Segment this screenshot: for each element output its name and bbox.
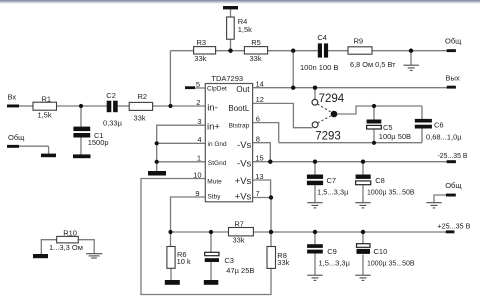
svg-text:12: 12	[256, 95, 264, 104]
svg-text:15: 15	[255, 153, 263, 162]
svg-text:1,5k: 1,5k	[37, 110, 51, 119]
svg-text:in Gnd: in Gnd	[208, 141, 228, 148]
svg-text:6: 6	[256, 114, 260, 123]
svg-text:6,8 Ом 0,5 Вт: 6,8 Ом 0,5 Вт	[350, 60, 396, 69]
svg-text:100n 100 В: 100n 100 В	[300, 63, 338, 72]
svg-text:Общ: Общ	[445, 37, 461, 46]
svg-text:ClpDet: ClpDet	[207, 85, 227, 92]
svg-text:Общ: Общ	[445, 181, 461, 190]
svg-text:4: 4	[197, 135, 201, 144]
svg-text:Stby: Stby	[208, 194, 222, 201]
svg-text:7293: 7293	[315, 131, 341, 143]
svg-text:C10: C10	[374, 247, 388, 256]
svg-text:C7: C7	[327, 176, 337, 185]
svg-text:9: 9	[195, 189, 199, 198]
svg-text:C6: C6	[434, 120, 444, 129]
svg-text:R5: R5	[251, 38, 261, 47]
svg-text:1000µ 35...50В: 1000µ 35...50В	[367, 258, 415, 267]
svg-text:7294: 7294	[319, 93, 345, 105]
svg-text:-Vs: -Vs	[237, 140, 252, 151]
svg-text:33k: 33k	[194, 54, 206, 63]
svg-text:R3: R3	[197, 38, 207, 47]
svg-text:1,5...3,3µ: 1,5...3,3µ	[317, 188, 349, 197]
svg-text:1: 1	[197, 154, 201, 163]
svg-text:5: 5	[196, 80, 200, 89]
svg-text:R9: R9	[354, 36, 364, 45]
svg-text:in+: in+	[207, 121, 220, 132]
svg-text:100µ 50В: 100µ 50В	[379, 132, 411, 141]
svg-text:33k: 33k	[277, 258, 289, 267]
svg-text:1,5...3,3µ: 1,5...3,3µ	[319, 259, 351, 268]
svg-text:Out: Out	[236, 85, 250, 94]
svg-text:0,33µ: 0,33µ	[103, 118, 123, 127]
svg-text:Btstrap: Btstrap	[229, 123, 250, 130]
svg-text:0,68...1,0µ: 0,68...1,0µ	[426, 132, 462, 141]
svg-text:C4: C4	[317, 33, 327, 42]
svg-text:+Vs: +Vs	[235, 176, 252, 187]
svg-text:33k: 33k	[250, 54, 262, 63]
svg-text:+Vs: +Vs	[235, 191, 252, 202]
svg-text:TDA7293: TDA7293	[211, 74, 243, 83]
svg-text:7: 7	[256, 189, 260, 198]
svg-text:C5: C5	[383, 123, 393, 132]
svg-text:C3: C3	[224, 256, 234, 265]
svg-text:-Vs: -Vs	[237, 159, 252, 170]
svg-text:Вх: Вх	[8, 93, 17, 102]
svg-text:StGnd: StGnd	[208, 160, 227, 167]
svg-text:1500p: 1500p	[88, 138, 109, 147]
svg-text:+25...35 В: +25...35 В	[437, 222, 470, 231]
svg-text:BootL: BootL	[228, 104, 249, 113]
svg-text:Вых: Вых	[446, 74, 460, 83]
svg-text:C8: C8	[375, 176, 385, 185]
svg-text:33k: 33k	[134, 114, 146, 123]
svg-text:8: 8	[256, 135, 260, 144]
svg-text:2: 2	[196, 98, 200, 107]
svg-text:3: 3	[197, 117, 201, 126]
svg-text:10: 10	[193, 170, 201, 179]
svg-text:1,5k: 1,5k	[238, 25, 252, 34]
svg-text:13: 13	[255, 172, 263, 181]
svg-text:1000µ 35...50В: 1000µ 35...50В	[367, 188, 415, 197]
svg-text:10 k: 10 k	[177, 257, 191, 266]
svg-text:in-: in-	[207, 103, 218, 114]
svg-text:C9: C9	[327, 247, 337, 256]
svg-text:Mute: Mute	[207, 178, 222, 185]
svg-text:R7: R7	[234, 219, 244, 228]
svg-text:C2: C2	[106, 91, 116, 100]
svg-text:-25...35 В: -25...35 В	[438, 151, 468, 160]
svg-text:1...3,3 Ом: 1...3,3 Ом	[49, 243, 83, 252]
svg-text:R2: R2	[138, 92, 148, 101]
svg-text:R1: R1	[42, 94, 52, 103]
svg-text:R10: R10	[63, 229, 77, 238]
svg-text:14: 14	[256, 80, 264, 89]
svg-text:33k: 33k	[233, 236, 245, 245]
svg-text:47µ 25В: 47µ 25В	[226, 266, 254, 275]
svg-text:Общ: Общ	[8, 133, 24, 142]
